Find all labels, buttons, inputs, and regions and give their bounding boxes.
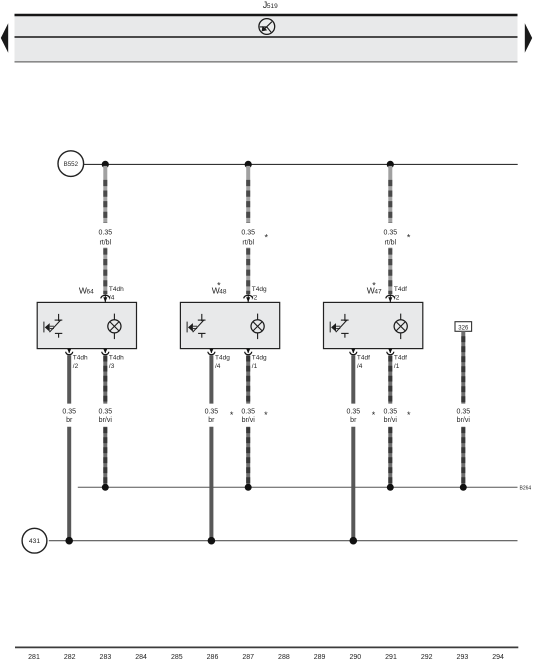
svg-text:/4: /4 [109,294,115,301]
svg-text:B552: B552 [64,161,79,168]
bus bar J519 (control module band) [15,15,518,62]
junction on ground line 431 [65,537,73,545]
svg-text:*: * [217,281,221,291]
svg-text:326: 326 [458,325,469,331]
wire track br 1 segment 1 (br, solid) [67,355,71,403]
svg-text:br/vi: br/vi [384,417,398,424]
wire track 3 upper rt/bl segment 2 (rt/bl, dashed) [388,248,392,295]
value label 0.35 br/vi track 293 [456,408,470,424]
svg-text:285: 285 [171,654,183,661]
value label 0.35 br/vi track 1 [98,408,112,424]
svg-text:T4df: T4df [357,355,370,362]
connector T4dh/2 (bottom left of unit) [66,349,73,355]
lamp symbol in W48 [251,314,264,340]
wire track br/vi 2 segment 2 (br/vi, dashed) [246,427,250,488]
current track numbers [28,654,504,661]
junction on top bus, track 2 [245,161,252,168]
svg-text:/2: /2 [394,294,400,301]
svg-text:/2: /2 [252,294,258,301]
svg-text:T4df: T4df [394,286,407,293]
svg-text:0.35: 0.35 [62,408,76,415]
value label 0.35 br/vi track 3 [383,408,397,424]
value label 0.35 br track 1 [62,408,76,424]
wire track br/vi 3 segment 1 (br/vi, dashed) [388,355,392,403]
wire track br 3 segment 2 (br, solid) [351,427,355,541]
svg-text:/4: /4 [357,363,363,370]
svg-text:0.35: 0.35 [98,408,112,415]
svg-text:T4dh: T4dh [109,355,124,362]
svg-text:294: 294 [492,654,504,661]
svg-text:0.35: 0.35 [205,408,219,415]
wire track 2 upper rt/bl segment 2 (rt/bl, dashed) [246,248,250,295]
svg-text:281: 281 [28,654,40,661]
bus symbol (circled arrow) [259,19,275,35]
junction on ground line 431 [208,537,216,545]
label T4dg/2 [252,286,267,301]
svg-text:br: br [66,417,73,424]
wire track br 3 segment 1 (br, solid) [351,355,355,403]
svg-text:291: 291 [385,654,397,661]
svg-text:286: 286 [207,654,219,661]
svg-text:/3: /3 [109,363,115,370]
label J519 [263,0,278,10]
wire track br 2 segment 1 (br, solid) [209,355,213,403]
wire track 3 upper rt/bl segment 1 (rt/bl, dashed) [388,166,392,223]
svg-text:284: 284 [135,654,147,661]
junction on B264 [245,484,252,491]
svg-text:br/vi: br/vi [99,417,113,424]
right continuation arrow [525,23,532,53]
svg-text:0.35: 0.35 [383,230,397,237]
svg-text:*: * [230,410,234,420]
svg-text:64: 64 [87,289,95,296]
switch-lamp unit W64 housing [37,302,136,348]
wire track 1 upper rt/bl segment 1 (rt/bl, dashed) [103,166,107,223]
svg-text:br: br [208,417,215,424]
wire track 293 br/vi segment 2 (br/vi, dashed) [461,427,465,488]
node B552 (plus connection) [58,151,84,177]
svg-text:/2: /2 [73,363,79,370]
svg-text:288: 288 [278,654,290,661]
svg-text:*: * [407,410,411,420]
svg-text:289: 289 [314,654,326,661]
designator W47 [367,286,382,296]
svg-text:0.35: 0.35 [456,408,470,415]
svg-text:br/vi: br/vi [457,417,471,424]
connector T4df/2 (top of unit) [386,294,395,302]
label T4dg/4 [215,355,230,370]
svg-text:rt/bl: rt/bl [99,239,111,246]
value label 0.35 br/vi track 2 [241,408,255,424]
designator W48 [212,286,227,296]
left continuation arrow [1,23,8,53]
svg-text:283: 283 [100,654,112,661]
wire track 2 upper rt/bl segment 1 (rt/bl, dashed) [246,166,250,223]
value label 0.35 rt/bl track 2 [241,230,255,247]
wire track br/vi 1 segment 2 (br/vi, dashed) [103,427,107,488]
junction on B264 [460,484,467,491]
svg-text:B264: B264 [520,486,532,492]
lamp symbol in W47 [394,314,407,340]
svg-text:rt/bl: rt/bl [384,239,396,246]
node 431 (ground connection) [22,528,47,553]
svg-text:287: 287 [242,654,254,661]
svg-text:/1: /1 [252,363,258,370]
value label 0.35 br track 2 [205,408,219,424]
connector T4dh/4 (top of unit) [101,294,110,302]
svg-text:T4dh: T4dh [73,355,88,362]
label T4df/1 [394,355,407,370]
svg-text:br/vi: br/vi [242,417,256,424]
wire track br 2 segment 2 (br, solid) [209,427,213,541]
junction on B264 [387,484,394,491]
svg-text:*: * [407,232,411,242]
svg-text:431: 431 [29,538,41,545]
svg-text:*: * [372,410,376,420]
svg-text:br: br [350,417,357,424]
connector T4dg/2 (top of unit) [244,294,253,302]
svg-text:*: * [264,410,268,420]
label T4df/4 [357,355,370,370]
connector T4df/4 (bottom left of unit) [350,349,357,355]
wire: bus line B264 [78,486,518,488]
svg-text:*: * [372,281,376,291]
junction on B264 [102,484,109,491]
connector T4dg/4 (bottom left of unit) [208,349,215,355]
current track ruler line [15,646,518,648]
wire track 1 upper rt/bl segment 2 (rt/bl, dashed) [103,248,107,295]
svg-text:rt/bl: rt/bl [242,239,254,246]
svg-text:*: * [264,232,268,242]
value label 0.35 rt/bl track 1 [98,230,112,247]
connector reference box 326 [455,322,472,332]
connector T4df/1 (bottom right of unit) [387,349,394,355]
junction on top bus, track 1 [102,161,109,168]
switch contact symbol in W47 [330,314,348,338]
svg-text:/4: /4 [215,363,221,370]
svg-text:0.35: 0.35 [98,230,112,237]
junction on top bus, track 3 [387,161,394,168]
label T4dh/4 [109,286,124,301]
label T4df/2 [394,286,407,301]
label T4dg/1 [252,355,267,370]
wire: ground line 431 [49,540,518,542]
svg-text:0.35: 0.35 [383,408,397,415]
svg-text:T4dh: T4dh [109,286,124,293]
svg-text:519: 519 [267,3,278,10]
svg-text:T4dg: T4dg [252,286,267,293]
wire track br/vi 1 segment 1 (br/vi, dashed) [103,355,107,403]
junction on ground line 431 [350,537,358,545]
svg-text:282: 282 [64,654,76,661]
value label 0.35 rt/bl track 3 [383,230,397,247]
switch-lamp unit W47 housing [324,302,423,348]
svg-text:T4dg: T4dg [252,355,267,362]
wire track br/vi 3 segment 2 (br/vi, dashed) [388,427,392,488]
switch-lamp unit W48 housing [180,302,279,348]
svg-text:293: 293 [457,654,469,661]
svg-text:0.35: 0.35 [346,408,360,415]
designator W64 [79,286,94,296]
connector T4dg/1 (bottom right of unit) [245,349,252,355]
switch contact symbol in W48 [187,314,205,338]
wire track 293 br/vi segment 1 (br/vi, dashed) [461,331,465,403]
wire track br 1 segment 2 (br, solid) [67,427,71,541]
svg-text:/1: /1 [394,363,400,370]
label T4dh/3 [109,355,124,370]
svg-text:T4df: T4df [394,355,407,362]
wire: top horizontal bus from B552 [84,163,518,165]
connector T4dh/3 (bottom right of unit) [102,349,109,355]
wire track br/vi 2 segment 1 (br/vi, dashed) [246,355,250,403]
value label 0.35 br track 3 [346,408,360,424]
svg-text:292: 292 [421,654,433,661]
svg-text:0.35: 0.35 [241,408,255,415]
switch contact symbol in W64 [44,314,62,338]
svg-text:290: 290 [349,654,361,661]
svg-text:0.35: 0.35 [241,230,255,237]
lamp symbol in W64 [108,314,121,340]
label T4dh/2 [73,355,88,370]
svg-text:T4dg: T4dg [215,355,230,362]
